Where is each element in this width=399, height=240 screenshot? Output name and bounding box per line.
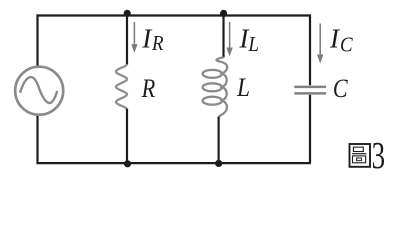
wire C branch lower xyxy=(309,95,311,163)
svg-text:C: C xyxy=(333,76,349,104)
label I_L xyxy=(239,23,259,56)
AC voltage source (circle with sine wave) xyxy=(15,67,63,115)
wire R branch lower xyxy=(126,109,128,163)
svg-text:3: 3 xyxy=(372,134,385,177)
inductor L (gray coil) xyxy=(203,57,228,118)
svg-text:R: R xyxy=(151,32,163,55)
junction dot top L node xyxy=(220,10,227,17)
wire L branch lower xyxy=(218,117,220,163)
junction dot bottom L node xyxy=(215,160,222,167)
capacitor C (two plates) xyxy=(294,87,326,94)
svg-text:R: R xyxy=(141,75,156,104)
wire C branch upper xyxy=(309,14,311,85)
label C (capacitor value) xyxy=(333,76,349,104)
label L (inductor value) xyxy=(236,74,250,102)
junction dot bottom R node xyxy=(124,160,131,167)
wire R branch upper xyxy=(126,14,128,64)
wire top rail xyxy=(36,14,311,16)
svg-text:C: C xyxy=(340,33,353,56)
resistor R (gray squiggle) xyxy=(116,64,127,110)
figure caption glyph 圖 (drawn) xyxy=(350,144,371,167)
arrow current I_R xyxy=(131,22,137,53)
wire left upper (source top lead) xyxy=(36,14,38,66)
wire bottom rail xyxy=(36,162,311,164)
wire left lower (source bottom lead) xyxy=(36,115,38,163)
label I_R xyxy=(141,23,163,55)
label I_C xyxy=(329,23,353,56)
wire L branch upper xyxy=(222,14,224,57)
svg-text:L: L xyxy=(247,33,258,56)
junction dot top R node xyxy=(124,10,131,17)
figure caption number 3 xyxy=(372,134,385,177)
label R (resistor value) xyxy=(141,75,156,104)
arrow current I_L xyxy=(226,22,232,56)
svg-text:L: L xyxy=(236,74,250,102)
arrow current I_C xyxy=(317,24,323,64)
